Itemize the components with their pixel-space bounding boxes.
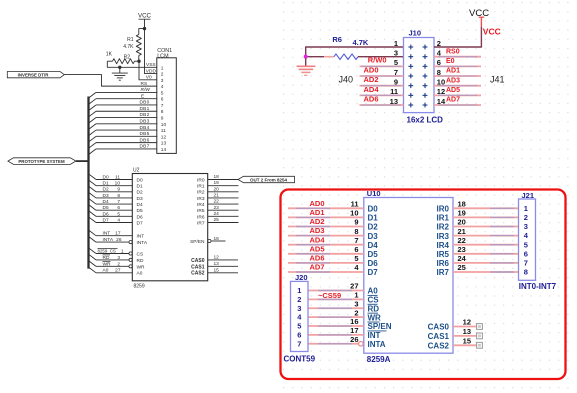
- svg-text:SP/EN: SP/EN: [368, 322, 392, 331]
- svg-text:5: 5: [161, 90, 164, 96]
- wire/net D3 pin 8 (U2 left) with bus entry: [89, 192, 143, 202]
- svg-text:SP/EN: SP/EN: [190, 239, 205, 245]
- svg-text:RS0: RS0: [446, 48, 460, 55]
- svg-text:WR: WR: [368, 313, 382, 322]
- svg-text:IR2: IR2: [197, 190, 205, 196]
- svg-text:IR7: IR7: [437, 268, 450, 277]
- svg-text:D4: D4: [368, 241, 379, 250]
- svg-text:8: 8: [117, 193, 120, 199]
- wire CAS2 pin 15 (U2 right): [191, 267, 238, 276]
- wire J20 pin 5 to U10 SP/EN pin 16: [308, 317, 392, 331]
- wire DB5 to CON1 pin 12 with bus entry: [89, 131, 158, 142]
- svg-text:7: 7: [297, 339, 301, 348]
- svg-text:8: 8: [161, 109, 164, 115]
- svg-text:D2: D2: [103, 187, 109, 193]
- wire DB1 to CON1 pin 8 with bus entry: [89, 106, 158, 117]
- svg-text:WR: WR: [137, 264, 146, 270]
- wire/net RD pin 3 (U2, bubble): [89, 254, 144, 264]
- svg-text:20: 20: [214, 186, 220, 192]
- resistor R2 1K: [106, 52, 139, 64]
- svg-text:VSS: VSS: [146, 62, 156, 68]
- svg-text:8: 8: [354, 227, 358, 236]
- svg-text:VDD: VDD: [146, 68, 157, 74]
- svg-text:2: 2: [354, 308, 358, 317]
- svg-text:10: 10: [161, 122, 167, 128]
- wire U10 CAS1 pin 13 to pad: [428, 327, 483, 341]
- svg-text:11: 11: [161, 128, 166, 134]
- svg-text:25: 25: [458, 263, 466, 272]
- svg-text:5: 5: [117, 211, 120, 217]
- svg-text:AD0: AD0: [363, 65, 378, 74]
- power VCC (left section): [138, 13, 152, 20]
- svg-text:8259_CS: 8259_CS: [98, 248, 116, 253]
- wire U10 IR4 pin 22 to J21 pin 5: [437, 236, 519, 250]
- svg-text:1: 1: [524, 204, 528, 213]
- svg-text:IR1: IR1: [437, 214, 450, 223]
- svg-text:IR6: IR6: [437, 259, 450, 268]
- svg-text:14: 14: [437, 97, 446, 106]
- wire AD5 to U10 D5 pin 6: [288, 244, 378, 259]
- svg-text:DB4: DB4: [140, 125, 150, 131]
- svg-text:D5: D5: [368, 250, 379, 259]
- svg-text:AD0: AD0: [309, 199, 324, 208]
- svg-text:PROTOTYPE SYSTEM: PROTOTYPE SYSTEM: [18, 159, 65, 164]
- wire U10 IR1 pin 19 to J21 pin 2: [437, 209, 519, 223]
- op-chip U2 8259 body: [132, 167, 207, 289]
- svg-text:J21: J21: [522, 191, 535, 200]
- ground symbol (left section): [112, 67, 128, 80]
- svg-text:AD1: AD1: [446, 68, 460, 75]
- svg-text:AD7: AD7: [309, 263, 324, 272]
- wire DB0 to CON1 pin 7 with bus entry: [89, 100, 158, 111]
- wire U10 IR0 pin 18 to J21 pin 1: [437, 200, 519, 214]
- svg-text:R/W0: R/W0: [368, 56, 387, 65]
- svg-text:26: 26: [116, 237, 122, 243]
- svg-text:AD6: AD6: [363, 94, 378, 103]
- svg-text:AD6: AD6: [309, 254, 324, 263]
- svg-text:VCC: VCC: [138, 13, 152, 20]
- wire U10 IR7 pin 25 to J21 pin 8: [437, 263, 519, 277]
- wire J20 pin 6 to U10 INT pin 17: [308, 326, 381, 340]
- svg-text:R1: R1: [127, 37, 134, 43]
- wire AD4 to U10 D4 pin 7: [288, 235, 378, 250]
- svg-text:D5: D5: [137, 208, 143, 214]
- svg-text:8259: 8259: [134, 283, 145, 289]
- svg-text:J10: J10: [409, 29, 422, 38]
- wire DB3 to CON1 pin 10 with bus entry: [89, 118, 158, 129]
- svg-text:INT: INT: [137, 234, 145, 240]
- svg-text:21: 21: [458, 227, 466, 236]
- svg-text:OUT 2 From 8254: OUT 2 From 8254: [250, 178, 288, 183]
- wire/net WR pin 2 (U2, bubble): [89, 261, 146, 271]
- svg-text:CAS1: CAS1: [428, 332, 450, 341]
- svg-text:4: 4: [161, 84, 164, 90]
- svg-text:6: 6: [437, 58, 441, 67]
- svg-text:D3: D3: [368, 232, 379, 241]
- svg-text:13: 13: [463, 327, 471, 336]
- svg-text:4.7K: 4.7K: [353, 38, 369, 47]
- red highlight box (rounded): [281, 190, 566, 380]
- svg-text:IR5: IR5: [197, 208, 205, 214]
- grid-dots (decorative background, right section): [283, 2, 569, 389]
- svg-text:A0: A0: [368, 287, 379, 296]
- wire AD2 to U10 D2 pin 9: [288, 217, 378, 232]
- svg-text:12: 12: [161, 134, 167, 140]
- wire/net D7 pin 4 (U2 left) with bus entry: [89, 217, 143, 227]
- svg-text:D0: D0: [368, 205, 379, 214]
- svg-text:CONT59: CONT59: [284, 354, 316, 363]
- svg-text:AD5: AD5: [309, 244, 324, 253]
- svg-text:~CS59: ~CS59: [318, 291, 341, 300]
- svg-text:DB0: DB0: [140, 100, 150, 106]
- svg-text:D1: D1: [368, 214, 379, 223]
- svg-text:AD7: AD7: [446, 97, 460, 104]
- wire/net INT pin 17 (U2): [89, 230, 145, 240]
- svg-text:3: 3: [394, 48, 398, 57]
- wire J10 pin 9 stub: [360, 85, 404, 87]
- svg-text:RD: RD: [368, 304, 380, 313]
- wire IR4 pin 22 (U2 right): [197, 199, 238, 208]
- svg-text:D6: D6: [137, 214, 143, 220]
- svg-text:IR0: IR0: [437, 205, 450, 214]
- svg-text:2: 2: [437, 39, 441, 48]
- svg-text:1: 1: [394, 39, 398, 48]
- svg-text:11: 11: [351, 200, 359, 209]
- svg-text:27: 27: [350, 282, 358, 291]
- wire J20 pin 3 to U10 RD pin 3: [308, 299, 379, 313]
- svg-text:AD5: AD5: [446, 87, 460, 94]
- svg-text:3: 3: [161, 78, 164, 84]
- svg-text:5: 5: [524, 240, 528, 249]
- wire J20 pin 4 to U10 WR pin 2: [308, 308, 381, 322]
- svg-text:IR5: IR5: [437, 250, 450, 259]
- svg-text:U2: U2: [133, 167, 140, 173]
- svg-text:R/W: R/W: [141, 87, 151, 93]
- junction node (magenta) at J10 input: [304, 55, 308, 59]
- wire J10 pin 2 to VCC: [434, 17, 484, 47]
- wire CAS1 pin 13 (U2 right): [191, 261, 238, 270]
- svg-text:J20: J20: [295, 273, 308, 282]
- svg-text:1: 1: [297, 286, 301, 295]
- connector J10 (16x2 LCD header): [404, 29, 435, 113]
- svg-text:WR: WR: [103, 261, 112, 267]
- svg-text:D1: D1: [103, 181, 109, 187]
- svg-text:D2: D2: [137, 190, 143, 196]
- wire J20 pin 2 to U10 CS pin 1: [308, 291, 379, 305]
- svg-text:15: 15: [214, 267, 220, 273]
- svg-text:3: 3: [297, 304, 301, 313]
- svg-text:DB5: DB5: [140, 131, 150, 137]
- wire PROTOTYPE SYSTEM to bus: [76, 160, 89, 162]
- svg-text:3: 3: [524, 222, 528, 231]
- svg-text:DB6: DB6: [140, 137, 150, 143]
- wire J10 pin 12 stub: [434, 94, 481, 96]
- op-chip U10 8259A body: [364, 189, 453, 364]
- svg-text:21: 21: [214, 193, 220, 199]
- svg-text:INT: INT: [103, 231, 111, 237]
- wire/net 8259_CS pin 1 (U2 CS, bubble): [89, 248, 144, 258]
- svg-text:24: 24: [458, 254, 467, 263]
- svg-text:26: 26: [350, 335, 358, 344]
- svg-text:IR3: IR3: [197, 196, 205, 202]
- svg-text:9: 9: [161, 116, 164, 122]
- svg-text:24: 24: [214, 211, 220, 217]
- svg-text:D3: D3: [103, 193, 109, 199]
- svg-text:CAS2: CAS2: [191, 271, 205, 277]
- wire J10 pin 6 stub: [434, 65, 481, 67]
- svg-text:D1: D1: [137, 184, 143, 190]
- wire J10 pin 1 net: [306, 47, 404, 57]
- wire/net D5 pin 6 (U2 left) with bus entry: [89, 205, 143, 215]
- svg-text:A0: A0: [137, 271, 143, 277]
- svg-text:V0: V0: [146, 75, 152, 81]
- svg-text:9: 9: [117, 187, 120, 193]
- wire J10 pin 7 stub: [360, 75, 404, 77]
- wire INVERSE DT/R to RS pin 4: [64, 75, 157, 87]
- svg-text:7: 7: [354, 236, 358, 245]
- svg-text:D6: D6: [103, 211, 109, 217]
- wire/net D6 pin 5 (U2 left) with bus entry: [89, 211, 143, 221]
- svg-text:25: 25: [214, 217, 220, 223]
- svg-text:IR0: IR0: [197, 177, 205, 183]
- wire node to V0 pin 3: [139, 61, 157, 80]
- svg-text:AD2: AD2: [309, 217, 324, 226]
- svg-text:2: 2: [117, 261, 120, 267]
- wire AD7 to U10 D7 pin 4: [288, 263, 378, 278]
- svg-text:8259A: 8259A: [367, 355, 391, 364]
- wire/net D0 pin 11 (U2 left) with bus entry: [89, 174, 143, 184]
- wire U10 IR2 pin 20 to J21 pin 3: [437, 218, 519, 232]
- svg-text:VCC: VCC: [469, 8, 489, 19]
- svg-text:CAS1: CAS1: [191, 264, 205, 270]
- svg-text:10: 10: [437, 77, 445, 86]
- wire J10 pin 10 stub: [434, 85, 481, 87]
- J10 LCD sub-circuit: [297, 8, 505, 124]
- svg-text:16: 16: [350, 317, 358, 326]
- svg-text:CAS0: CAS0: [191, 258, 205, 264]
- wire J10 pin 5 stub: [360, 65, 404, 67]
- wire AD1 to U10 D1 pin 10: [288, 208, 378, 223]
- svg-text:16x2 LCD: 16x2 LCD: [407, 115, 444, 124]
- svg-text:DB7: DB7: [140, 144, 150, 150]
- svg-text:19: 19: [214, 180, 220, 186]
- svg-text:4.7K: 4.7K: [123, 44, 134, 50]
- svg-text:D0: D0: [103, 174, 109, 180]
- wire IR5 pin 23 (U2 right): [197, 205, 238, 214]
- svg-text:AD4: AD4: [363, 85, 379, 94]
- wire J10 pin 8 stub: [434, 75, 481, 77]
- svg-text:1: 1: [121, 248, 124, 254]
- svg-text:RS: RS: [141, 81, 148, 87]
- svg-text:2: 2: [161, 72, 164, 78]
- wire IR0 pin 18 (U2 right): [197, 174, 238, 183]
- svg-text:IR4: IR4: [437, 241, 450, 250]
- svg-text:J41: J41: [490, 75, 505, 85]
- svg-text:27: 27: [115, 268, 121, 274]
- bus (vertical data bus): [87, 97, 89, 269]
- svg-text:8: 8: [437, 68, 441, 77]
- wire DB6 to CON1 pin 13 with bus entry: [89, 137, 158, 148]
- svg-text:8: 8: [524, 268, 528, 277]
- svg-text:22: 22: [458, 236, 466, 245]
- svg-text:23: 23: [214, 205, 220, 211]
- svg-text:4: 4: [354, 263, 359, 272]
- svg-text:6: 6: [161, 97, 164, 103]
- svg-text:INTA: INTA: [137, 240, 148, 246]
- svg-text:IR6: IR6: [197, 214, 205, 220]
- svg-text:INTA: INTA: [103, 237, 114, 243]
- svg-text:1: 1: [161, 65, 164, 71]
- wire U10 CAS2 pin 15 to pad: [428, 337, 483, 351]
- svg-text:17: 17: [115, 231, 121, 237]
- svg-text:D4: D4: [137, 202, 143, 208]
- svg-text:14: 14: [161, 147, 167, 153]
- svg-text:4: 4: [117, 217, 120, 223]
- svg-text:IR7: IR7: [197, 220, 205, 226]
- svg-text:CAS2: CAS2: [428, 342, 450, 351]
- svg-text:9: 9: [354, 218, 358, 227]
- wire VCC vertical to VDD: [145, 19, 158, 73]
- wire SP/EN pin 16 (U2, bubble): [190, 236, 225, 245]
- svg-text:5: 5: [297, 322, 301, 331]
- wire DB4 to CON1 pin 11 with bus entry: [89, 125, 158, 136]
- junction dot R1/R2 node: [137, 60, 140, 63]
- connector J21 (pins 1-8): [519, 191, 536, 280]
- connector J20 (pins 1-7): [291, 273, 309, 351]
- wire DB7 to CON1 pin 14 with bus entry: [89, 144, 158, 155]
- svg-text:6: 6: [354, 245, 358, 254]
- wire U10 IR3 pin 21 to J21 pin 4: [437, 227, 519, 241]
- wire VSS pin 1: [107, 61, 157, 67]
- svg-text:AD4: AD4: [309, 235, 325, 244]
- svg-text:D7: D7: [137, 220, 143, 226]
- wire AD6 to U10 D6 pin 5: [288, 254, 378, 269]
- svg-text:IR4: IR4: [197, 202, 205, 208]
- svg-text:17: 17: [350, 326, 358, 335]
- svg-text:D2: D2: [368, 223, 379, 232]
- wire U10 IR6 pin 24 to J21 pin 7: [437, 254, 519, 268]
- svg-text:IR3: IR3: [437, 232, 450, 241]
- wire J10 pin 4 stub: [434, 56, 481, 58]
- svg-text:18: 18: [214, 174, 220, 180]
- svg-text:RD: RD: [103, 255, 110, 261]
- svg-text:6: 6: [524, 249, 528, 258]
- wire IR1 pin 19 (U2 right): [197, 180, 238, 189]
- wire/net A0 pin 27 (U2): [89, 267, 143, 277]
- wire/net D4 pin 7 (U2 left) with bus entry: [89, 198, 143, 208]
- svg-text:D6: D6: [368, 259, 379, 268]
- svg-text:12: 12: [214, 255, 220, 261]
- wire J20 pin 7 to U10 INTA pin 26: [308, 335, 386, 349]
- red boxed 8259A sub-circuit: [281, 189, 566, 379]
- wire CAS0 pin 12 (U2 right): [191, 255, 238, 264]
- wire AD0 to U10 D0 pin 11: [288, 199, 378, 214]
- svg-text:AD3: AD3: [446, 77, 460, 84]
- svg-text:7: 7: [117, 199, 120, 205]
- svg-text:11: 11: [115, 174, 120, 180]
- svg-text:13: 13: [214, 261, 220, 267]
- svg-text:20: 20: [458, 218, 466, 227]
- net flag OUT 2 From 8254 (on IR0): [238, 176, 295, 182]
- svg-text:A0: A0: [103, 268, 109, 274]
- svg-text:15: 15: [463, 337, 471, 346]
- svg-text:7: 7: [524, 259, 528, 268]
- ground symbol (J10 net): [297, 58, 316, 75]
- svg-text:16: 16: [214, 236, 220, 242]
- svg-text:19: 19: [458, 209, 466, 218]
- wire E to CON1 pin 6 with bus entry: [89, 93, 158, 104]
- svg-text:VCC: VCC: [483, 27, 501, 37]
- wire/net D1 pin 10 (U2 left) with bus entry: [89, 180, 143, 190]
- svg-text:18: 18: [458, 200, 466, 209]
- svg-text:10: 10: [350, 209, 358, 218]
- svg-text:12: 12: [437, 87, 445, 96]
- svg-text:6: 6: [297, 331, 301, 340]
- svg-text:2: 2: [524, 213, 528, 222]
- svg-text:DB1: DB1: [140, 106, 150, 112]
- svg-text:DB2: DB2: [140, 112, 150, 118]
- svg-text:12: 12: [463, 318, 471, 327]
- wire J20 pin 1 to U10 A0 pin 27: [308, 282, 378, 296]
- wire U10 CAS0 pin 12 to pad: [428, 318, 483, 332]
- svg-text:3: 3: [117, 255, 120, 261]
- net flag PROTOTYPE SYSTEM: [8, 158, 76, 165]
- wire J10 pin 3 net (left part): [306, 56, 334, 58]
- svg-text:E0: E0: [446, 58, 455, 65]
- wire AD3 to U10 D3 pin 8: [288, 226, 378, 241]
- wire R/W to CON1 pin 5 with bus entry: [89, 87, 158, 98]
- svg-text:D4: D4: [103, 199, 109, 205]
- svg-text:CS: CS: [368, 296, 380, 305]
- wire J10 pin 13 stub: [360, 104, 404, 106]
- junction dot on VSS wire: [118, 66, 121, 69]
- wire DB2 to CON1 pin 9 with bus entry: [89, 112, 158, 123]
- svg-text:D7: D7: [368, 268, 379, 277]
- svg-text:D7: D7: [103, 217, 109, 223]
- svg-text:CS: CS: [137, 251, 144, 257]
- wire IR6 pin 24 (U2 right): [197, 211, 238, 220]
- wire IR7 pin 25 (U2 right): [197, 217, 238, 226]
- svg-text:7: 7: [161, 103, 164, 109]
- svg-text:INT0-INT7: INT0-INT7: [519, 282, 557, 291]
- wire J10 pin 11 stub: [360, 94, 404, 96]
- svg-text:D0: D0: [137, 177, 143, 183]
- connector CON1 LCM (pins 1-14): [157, 48, 177, 153]
- svg-text:6: 6: [117, 205, 120, 211]
- svg-text:U10: U10: [367, 189, 381, 198]
- resistor R1 4.7K: [123, 29, 144, 62]
- svg-text:D3: D3: [137, 196, 143, 202]
- svg-text:5: 5: [354, 254, 358, 263]
- wire IR3 pin 21 (U2 right): [197, 193, 238, 202]
- wire U10 IR5 pin 23 to J21 pin 6: [437, 245, 519, 259]
- svg-text:INT: INT: [368, 331, 381, 340]
- svg-text:22: 22: [214, 199, 220, 205]
- svg-text:1K: 1K: [106, 52, 113, 58]
- svg-text:RD: RD: [137, 258, 144, 264]
- svg-text:3: 3: [354, 299, 358, 308]
- resistor R6 4.7K: [332, 35, 403, 59]
- svg-text:DB3: DB3: [140, 118, 150, 124]
- svg-text:IR1: IR1: [197, 184, 205, 190]
- svg-text:E: E: [141, 93, 144, 99]
- junction dot on VCC wire: [143, 27, 146, 30]
- svg-text:10: 10: [115, 181, 121, 187]
- svg-text:2: 2: [297, 295, 301, 304]
- svg-text:23: 23: [458, 245, 466, 254]
- wire J10 pin 14 stub: [434, 104, 481, 106]
- wire/net D2 pin 9 (U2 left) with bus entry: [89, 186, 143, 196]
